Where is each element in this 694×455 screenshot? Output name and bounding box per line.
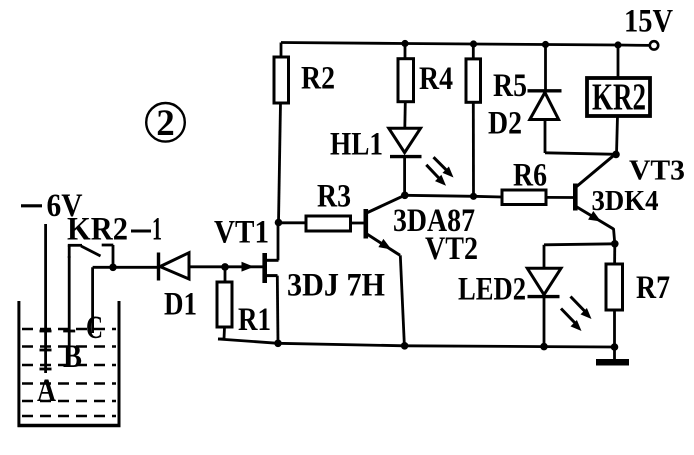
svg-text:LED2: LED2	[458, 272, 526, 308]
svg-text:R6: R6	[513, 158, 547, 194]
wire gate: D1 to VT1 with arrow	[189, 262, 263, 272]
HL1 emission arrow 2	[426, 165, 446, 186]
svg-text:1: 1	[152, 212, 162, 248]
junction node R1 top	[221, 263, 229, 271]
water dashed line 3	[22, 364, 116, 367]
junction node R3 left	[275, 219, 283, 227]
electrode B	[63, 256, 75, 366]
diode D2	[528, 45, 562, 154]
svg-text:D1: D1	[164, 287, 197, 323]
water dashed line 2	[22, 345, 116, 348]
svg-text:VT1: VT1	[214, 215, 269, 251]
svg-text:C: C	[86, 310, 103, 346]
wire top supply rail	[281, 43, 650, 46]
junction node KR2 top	[614, 41, 621, 48]
resistor R2	[274, 43, 289, 223]
HL1 emission arrow 1	[434, 157, 454, 177]
svg-text:R4: R4	[419, 61, 453, 97]
diode D1	[159, 253, 190, 281]
svg-text:R1: R1	[238, 302, 271, 338]
junction node VT2 emitter bottom	[401, 342, 409, 350]
label KR2-1	[67, 212, 162, 248]
svg-text:2: 2	[156, 103, 175, 144]
wire VT2 collector node to R5 bottom	[405, 195, 474, 196]
svg-text:3DK4: 3DK4	[592, 185, 659, 217]
svg-text:15V: 15V	[624, 4, 673, 40]
junction node R7 bottom	[611, 343, 619, 351]
svg-text:KR2: KR2	[592, 77, 646, 119]
electrode C	[93, 267, 113, 333]
junction node VT3 emitter	[611, 240, 619, 248]
svg-text:VT3: VT3	[629, 155, 685, 187]
junction node D2 top	[542, 41, 549, 48]
water dashed line 5	[22, 400, 116, 403]
LED LED2	[527, 245, 561, 347]
resistor R3	[279, 216, 366, 231]
junction node VT1 source bottom	[274, 340, 282, 348]
resistor R1	[217, 267, 232, 339]
water dashed line 1	[22, 328, 116, 331]
svg-text:3DJ 7H: 3DJ 7H	[287, 268, 385, 304]
figure number circled 2	[146, 103, 185, 144]
junction node VT3 collector	[612, 151, 620, 159]
water dashed line 6	[22, 415, 116, 418]
LED HL1	[389, 128, 422, 195]
resistor R4	[398, 44, 414, 129]
relay contact KR2-1	[68, 245, 114, 267]
ground	[596, 347, 629, 366]
svg-text:6V: 6V	[47, 188, 83, 224]
wire contact node to D1	[113, 266, 157, 269]
junction node LED2 bottom	[540, 343, 548, 351]
resistor R5	[466, 44, 481, 196]
svg-text:D2: D2	[488, 106, 522, 142]
svg-text:R2: R2	[301, 61, 335, 97]
transistor VT1 (FET)	[263, 223, 279, 344]
junction node R5 bottom	[470, 193, 477, 200]
svg-text:A: A	[37, 373, 56, 409]
label -6V	[21, 188, 83, 224]
relay coil KR2	[587, 45, 650, 154]
tank	[18, 301, 121, 427]
wire bottom rail	[218, 339, 615, 347]
svg-text:B: B	[63, 339, 82, 375]
junction node contact output	[109, 264, 117, 272]
electrode A	[40, 224, 52, 373]
svg-text:R7: R7	[636, 270, 670, 306]
junction node VT2 collector	[401, 192, 409, 200]
svg-text:R5: R5	[493, 68, 527, 104]
resistor R6	[474, 190, 574, 205]
resistor R7	[606, 244, 623, 347]
svg-text:VT2: VT2	[425, 231, 478, 267]
water dashed line 4	[22, 382, 116, 385]
terminal 15V open circle	[650, 41, 658, 49]
wire VT3 emitter node to LED2	[544, 244, 615, 245]
svg-text:HL1: HL1	[330, 127, 383, 163]
wire D2 bottom to VT3 collector node	[545, 153, 617, 155]
LED2 emission arrow 1	[571, 297, 592, 320]
LED2 emission arrow 2	[561, 309, 582, 332]
junction node R5 top	[470, 40, 477, 47]
junction node R4 top	[401, 40, 408, 47]
transistor VT3	[575, 155, 615, 244]
svg-text:R3: R3	[317, 179, 351, 215]
transistor VT2	[366, 196, 405, 346]
